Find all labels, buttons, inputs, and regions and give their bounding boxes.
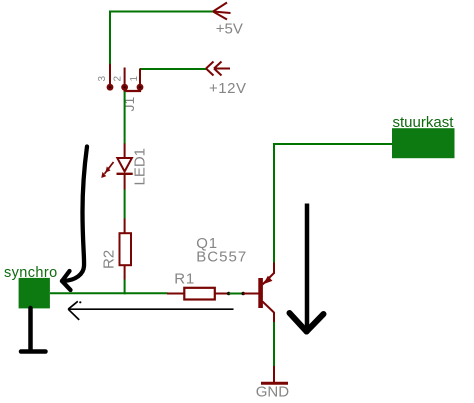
- connector J1 pin 2 lead: [124, 68, 126, 85]
- connector J1 pin 3 pad: [107, 84, 114, 91]
- transistor Q1 base bar: [258, 278, 263, 308]
- stuurkast box: [392, 128, 455, 158]
- resistor R1 right lead: [215, 293, 229, 295]
- connector J1 pin 1 lead: [139, 69, 141, 85]
- wire +5V horizontal: [109, 11, 213, 13]
- svg-text:+12V: +12V: [209, 80, 246, 97]
- connector J1 pin 3 lead: [109, 64, 111, 85]
- transistor Q1 collector lead: [273, 312, 275, 323]
- LED D1 cathode lead: [124, 175, 126, 190]
- svg-text:BC557: BC557: [196, 249, 247, 266]
- wire synchro to R1: [50, 292, 168, 294]
- ground symbol GND: [261, 382, 288, 385]
- LED emission arrow 1: [106, 162, 114, 172]
- svg-text:synchro: synchro: [4, 265, 58, 281]
- svg-text:1: 1: [129, 76, 140, 82]
- wire stuurkast horizontal: [273, 143, 393, 145]
- resistor R2 bottom lead: [124, 265, 126, 280]
- resistor R2 body: [120, 233, 132, 265]
- LED D1 anode lead: [124, 144, 126, 159]
- wire LED to R2: [124, 190, 126, 220]
- LED emission arrow 2: [102, 168, 110, 178]
- synchro box: [19, 278, 50, 309]
- transistor Q1 emitter diagonal: [263, 273, 275, 285]
- LED D1 cathode bar: [117, 173, 133, 175]
- wire R1 to base: [229, 293, 243, 295]
- transistor Q1 emitter arrowhead: [263, 276, 272, 284]
- svg-text:2: 2: [113, 76, 124, 82]
- svg-text:R1: R1: [174, 270, 195, 287]
- svg-text:+5V: +5V: [216, 21, 243, 38]
- resistor R1 left lead: [167, 293, 185, 295]
- wire +12V horizontal: [140, 68, 206, 70]
- svg-text:stuurkast: stuurkast: [393, 114, 455, 131]
- transistor Q1 collector diagonal: [263, 302, 275, 313]
- hand-drawn curved arrow shaft: [63, 147, 87, 282]
- wire emitter to stuurkast corner: [273, 144, 275, 263]
- junction dot A: [227, 292, 231, 296]
- supply symbol +5V: [213, 3, 231, 20]
- connector J1 pin 1 pad: [137, 84, 144, 91]
- wire +5V vertical: [109, 12, 111, 66]
- svg-text:GND: GND: [256, 384, 290, 401]
- wire J1 to LED: [124, 92, 126, 145]
- svg-text:3: 3: [97, 76, 108, 82]
- svg-text:LED1: LED1: [132, 148, 149, 186]
- GND lead: [273, 366, 275, 382]
- svg-text:R2: R2: [100, 250, 117, 269]
- wire R2 to node: [124, 280, 126, 295]
- resistor R2 top lead: [124, 219, 126, 234]
- svg-text:J1: J1: [121, 97, 137, 112]
- hand-drawn curved arrow head: [62, 271, 71, 290]
- transistor Q1 emitter lead: [273, 262, 275, 274]
- connector J1 pin 2 pad: [121, 84, 128, 91]
- wire collector to GND: [273, 322, 275, 367]
- thin arrow pen dot: [79, 301, 81, 303]
- bridge pin2-pin1: [125, 89, 140, 91]
- hand-drawn big arrow shaft: [305, 204, 310, 329]
- hand-drawn big arrow head: [290, 313, 324, 332]
- hand-drawn thin arrow line: [68, 308, 233, 310]
- junction dot B: [241, 292, 245, 296]
- transistor Q1 base lead: [244, 293, 259, 295]
- hand-drawn thin arrow head: [68, 301, 79, 320]
- hand-drawn ground stem under synchro: [28, 308, 33, 351]
- supply symbol +12V: [206, 62, 230, 76]
- hand-drawn ground bar: [21, 349, 46, 354]
- resistor R1 body: [184, 288, 215, 300]
- LED D1 triangle: [117, 158, 132, 172]
